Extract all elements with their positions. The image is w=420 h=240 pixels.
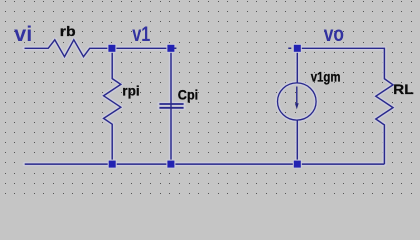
- svg-text:vo: vo: [324, 23, 344, 46]
- svg-text:Cpi: Cpi: [178, 86, 198, 102]
- svg-text:rb: rb: [60, 23, 76, 39]
- svg-text:rpi: rpi: [122, 83, 139, 99]
- svg-text:RL: RL: [393, 81, 414, 97]
- svg-text:v1: v1: [132, 23, 150, 46]
- svg-text:v1gm: v1gm: [311, 69, 341, 85]
- svg-text:vi: vi: [14, 23, 32, 46]
